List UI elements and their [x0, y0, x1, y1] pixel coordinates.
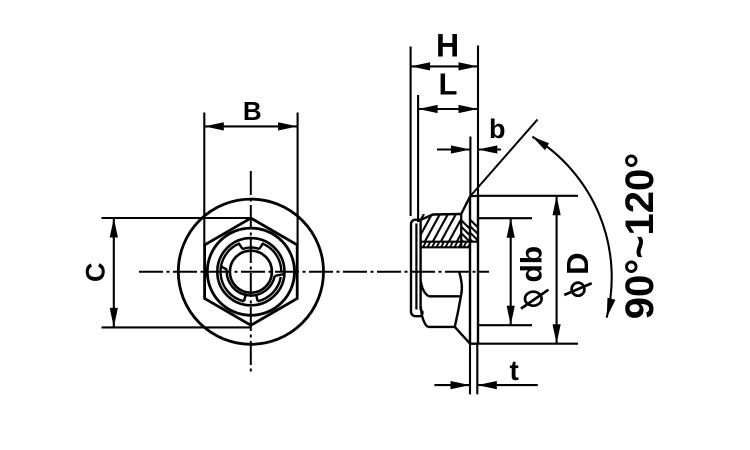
washer hatch — [362, 196, 492, 242]
phi-db dimension line — [510, 218, 512, 325]
counterbore line — [421, 241, 478, 243]
phi-db extension line bottom — [478, 324, 532, 326]
C arrow bottom — [110, 308, 118, 328]
svg-text:b: b — [489, 114, 506, 144]
B extension line right — [297, 113, 299, 247]
svg-text:L: L — [439, 67, 458, 102]
H arrow right — [459, 62, 479, 70]
ring outer circle — [217, 238, 284, 305]
chamfer circle — [207, 228, 294, 315]
H extension line left — [410, 47, 412, 217]
angle arrow bottom — [607, 298, 616, 318]
phi-D arrow bottom — [553, 324, 561, 344]
b arrow right — [478, 145, 498, 153]
nut hatch — [385, 214, 496, 242]
flange cone edge (section) — [461, 197, 470, 215]
b dimension line left — [437, 148, 470, 150]
B arrow right — [278, 122, 298, 130]
B arrow left — [204, 122, 224, 130]
C dimension line — [113, 218, 115, 327]
thread hole circle — [230, 251, 272, 293]
sleeve hatch — [400, 242, 484, 248]
cone-flat intersection curve — [455, 272, 462, 327]
flange cone silhouette — [455, 327, 470, 344]
L arrow left — [418, 105, 438, 113]
C extension line bottom — [102, 326, 252, 328]
phi symbol of phi-db — [525, 292, 542, 306]
H arrow left — [411, 62, 431, 70]
washer top edge — [470, 195, 478, 198]
hexagon — [205, 218, 298, 325]
phi-db arrow top — [507, 218, 515, 238]
phi-db extension line top — [478, 217, 532, 219]
nut bottom-left corner arc — [421, 307, 428, 327]
b dimension line right — [478, 148, 501, 150]
C extension line top — [102, 217, 252, 219]
washer right face — [477, 196, 479, 344]
svg-text:H: H — [436, 28, 459, 64]
horizontal centerline — [139, 271, 489, 273]
vertical centerline — [250, 171, 252, 372]
angle arc — [532, 137, 611, 318]
t extension line right — [476, 344, 478, 395]
t arrow right — [477, 381, 497, 389]
spring plate outer face — [411, 220, 421, 317]
nut top silhouette — [421, 214, 462, 220]
svg-text:B: B — [243, 96, 262, 126]
svg-text:D: D — [560, 253, 595, 275]
svg-text:C: C — [81, 262, 111, 282]
phi-db arrow bottom — [507, 306, 515, 326]
L arrow right — [459, 105, 479, 113]
nut bottom silhouette — [428, 326, 455, 328]
angle extension line — [470, 120, 538, 197]
phi-D extension line bottom — [470, 343, 578, 345]
b extension line left — [469, 137, 471, 197]
plate sleeve line — [421, 246, 470, 248]
L extension line left — [417, 95, 419, 222]
washer bottom edge — [470, 343, 478, 345]
spring plate inner face — [416, 224, 422, 317]
phi-D extension line top — [478, 195, 578, 197]
phi symbol of phi-D — [572, 283, 585, 296]
phi-D dimension line — [556, 196, 558, 344]
t dimension line left — [434, 384, 470, 386]
svg-text:90°~120°: 90°~120° — [618, 153, 662, 320]
flange circle — [178, 199, 323, 344]
t arrow left — [451, 381, 471, 389]
phi-D arrow top — [553, 196, 561, 216]
nut lower-left chamfer arc — [421, 282, 429, 297]
B extension line left — [203, 113, 205, 247]
svg-text:db: db — [516, 246, 549, 283]
cone hatch — [353, 197, 483, 242]
prongs (3 spring-plate fingers) — [221, 243, 285, 301]
t extension line left — [469, 344, 471, 395]
angle arrow top — [532, 137, 549, 151]
H dimension line — [411, 65, 478, 67]
L dimension line — [418, 108, 478, 110]
t dimension line right — [477, 384, 538, 386]
washer left face — [469, 196, 471, 343]
B dimension line — [204, 125, 297, 127]
nut left face — [419, 220, 421, 310]
H extension line right — [477, 46, 479, 196]
C arrow top — [110, 218, 118, 238]
b arrow left — [451, 145, 471, 153]
svg-text:t: t — [510, 355, 519, 386]
hex edge line — [429, 295, 460, 297]
nut/flange interface — [460, 214, 462, 247]
